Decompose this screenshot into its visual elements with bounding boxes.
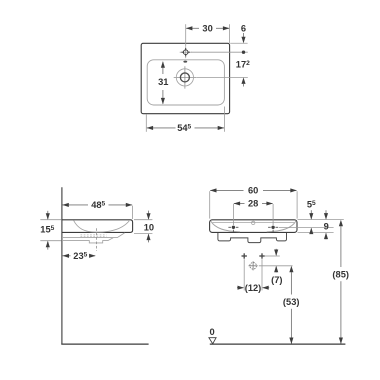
dimension (7) label xyxy=(271,275,282,285)
top view: faucet tap hole xyxy=(180,46,192,58)
top view: extension line from faucet hole to right xyxy=(191,51,248,53)
svg-text:10: 10 xyxy=(144,223,154,233)
dimension 23&#8309; line and arrows xyxy=(62,254,95,258)
dimension 48&#8309; extension line xyxy=(132,206,134,219)
front view: deck back edge line xyxy=(213,222,295,224)
dimension 30 line and arrows xyxy=(186,26,230,30)
dimension 17&#178; arrow xyxy=(241,77,245,86)
side view: wall line xyxy=(61,187,63,344)
front view: bowl silhouette right curve xyxy=(267,221,296,232)
svg-text:0: 0 xyxy=(210,327,215,337)
front view: extension line at slab bottom level xyxy=(298,232,334,234)
wall fixing hole marker 2 xyxy=(259,253,264,258)
dimension 28 extension lines xyxy=(233,204,273,225)
wall drain outlet (dashed circle with cross) xyxy=(249,261,258,270)
dimension 5&#8309; arrows xyxy=(309,210,313,234)
front view: pedestal / lower apron outline xyxy=(218,233,287,243)
top view: extension line from drain to right xyxy=(196,76,248,78)
side view: lower shell and drain boss xyxy=(62,238,113,243)
side view: basin slab profile outline xyxy=(62,220,133,233)
svg-text:9: 9 xyxy=(324,222,329,232)
dimension (85) label xyxy=(332,270,349,280)
dimension 9 arrows xyxy=(324,210,328,239)
datum triangle symbol xyxy=(209,338,216,344)
svg-text:(7): (7) xyxy=(271,275,282,285)
dimension (53) line and arrows xyxy=(289,266,293,344)
dimension 54&#8309; label xyxy=(177,123,191,133)
dimension 28 label xyxy=(248,199,258,209)
dimension 60 label xyxy=(248,186,258,196)
side view: bowl interior curve xyxy=(74,220,130,232)
svg-text:(12): (12) xyxy=(245,283,262,293)
dimension 31 line and arrows xyxy=(161,61,165,104)
front view: extension line at bolt hole level xyxy=(279,227,334,229)
svg-text:60: 60 xyxy=(248,186,258,196)
dimension 6 extension line (top edge, to the right) xyxy=(230,42,247,44)
dimension 54&#8309; line and arrows xyxy=(147,126,225,130)
svg-text:30: 30 xyxy=(202,24,212,34)
dimension 30 extension lines xyxy=(186,24,230,46)
dimension 10 extension lines xyxy=(134,220,152,234)
svg-text:(85): (85) xyxy=(332,270,349,280)
dimension 6 arrow and dot xyxy=(241,33,245,54)
dimension (85) line and arrows xyxy=(339,220,343,344)
dimension 28 line and arrows xyxy=(234,201,273,205)
dimension 48&#8309; line and arrows xyxy=(62,203,132,207)
dimension (7) arrows xyxy=(274,249,278,273)
front view: mounting bolt hole 2 xyxy=(268,226,278,232)
dimension 6 label xyxy=(241,24,246,34)
wall fixing hole marker 1 xyxy=(242,253,247,258)
svg-text:6: 6 xyxy=(241,24,246,34)
dimension 5&#8309; label xyxy=(307,199,316,209)
front view: extension line at rim top level xyxy=(298,219,344,221)
svg-text:31: 31 xyxy=(158,77,168,87)
top view: drain outlet xyxy=(174,66,196,88)
dimension (53) label xyxy=(283,297,300,307)
datum zero label xyxy=(210,327,215,337)
dimension (12) arrows xyxy=(237,286,269,290)
dimension 10 arrows xyxy=(146,211,150,243)
dimension 15&#8309; arrows xyxy=(46,211,50,250)
front view: mounting bolt hole 1 xyxy=(228,226,238,232)
svg-text:(53): (53) xyxy=(283,297,300,307)
dimension (12) label xyxy=(245,283,262,293)
dimension 23&#8309; label xyxy=(73,251,87,261)
dimension 9 label xyxy=(324,222,329,232)
side view: underside of bowl with chamfer xyxy=(62,233,125,238)
dimension 60 line and arrows xyxy=(210,188,297,192)
dimension 30 label xyxy=(202,24,212,34)
dimension 48&#8309; label xyxy=(91,200,105,210)
dimension 54&#8309; extension lines xyxy=(146,107,224,132)
dimension 31 label xyxy=(158,77,168,87)
dimension 17&#178; label xyxy=(236,60,250,70)
front view: faucet hole on deck xyxy=(252,221,255,224)
dimension (12) extension lines xyxy=(244,259,262,290)
top view: overflow slot xyxy=(183,61,187,63)
front view: bowl silhouette left curve xyxy=(211,221,240,232)
dimension (7) extension lines xyxy=(259,256,293,266)
front view: basin slab outline xyxy=(210,220,297,233)
side view: drain axis centerline (dashed) xyxy=(95,228,97,251)
dimension 60 extension lines xyxy=(210,191,297,218)
side view: floor line xyxy=(61,343,148,345)
side view: hidden overflow channel dashes xyxy=(81,235,107,236)
dimension 15&#8309; label xyxy=(40,225,54,235)
top view: washbasin outer rim outline xyxy=(141,43,229,113)
svg-text:28: 28 xyxy=(248,199,258,209)
dimension 10 label xyxy=(144,223,154,233)
top view: inner basin bowl edge xyxy=(147,60,224,105)
dimension 15&#8309; extension lines to the left of wall xyxy=(40,220,61,241)
front view: floor line xyxy=(210,343,346,345)
